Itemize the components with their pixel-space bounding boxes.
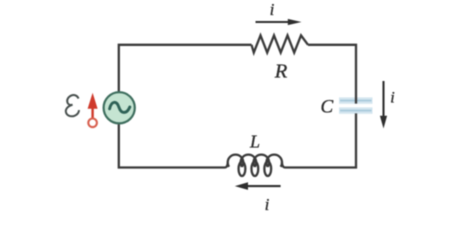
current arrow bottom (i left) [235,182,281,190]
emf polarity arrow (red, up) [88,93,98,127]
capacitor C1 top plate [339,97,373,103]
current arrow right (i down) [380,81,387,129]
emf symbol script E [64,94,81,117]
wire right-bottom segment [285,113,356,167]
AC source sine wave [110,102,130,112]
wire top-left segment [119,45,252,92]
svg-text:i: i [390,90,394,107]
inductor L1 coil [225,155,285,176]
svg-text:L: L [249,132,260,152]
current arrow top (i right) [256,19,302,25]
wire bottom-left segment [119,123,225,167]
svg-text:i: i [265,195,270,214]
resistor R1 zigzag [252,35,309,52]
svg-text:C: C [320,97,333,118]
AC source U1 circle [104,92,135,123]
capacitor C1 bottom plate [339,107,373,113]
svg-text:i: i [270,0,275,19]
svg-text:R: R [274,61,288,83]
wire top-right segment [308,45,356,104]
